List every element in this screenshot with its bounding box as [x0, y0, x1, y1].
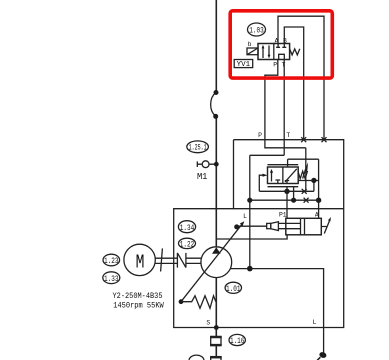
wire gallery to spring chamber and port A	[288, 159, 319, 209]
label 1.34	[178, 221, 195, 233]
coupling N	[177, 253, 186, 268]
plug X port B	[301, 137, 306, 142]
node gallery-A line2	[316, 198, 321, 203]
node M1 junction	[214, 162, 219, 167]
compensator left blocked stub	[275, 180, 280, 184]
wire line2 drain gallery	[250, 199, 319, 201]
plug X port A	[322, 137, 327, 142]
valve compensator body	[268, 167, 299, 184]
wire T route	[283, 60, 285, 156]
svg-text:P1: P1	[279, 212, 287, 219]
node suction at S	[214, 325, 219, 330]
wire P gallery down to pilot line1	[305, 148, 307, 192]
hose flexible connection	[211, 93, 216, 117]
solenoid b	[247, 48, 258, 55]
svg-text:1.22: 1.22	[180, 239, 195, 249]
compensator proportional lines	[268, 165, 299, 187]
red highlight frame	[230, 11, 332, 78]
shaft slash	[161, 248, 163, 271]
svg-text:Y2-250M-4B35: Y2-250M-4B35	[113, 293, 163, 301]
feedback cone tip box	[267, 223, 271, 228]
spring valve 1.03	[290, 49, 300, 55]
wire P internal jog	[265, 140, 306, 148]
wire A route to plug	[278, 16, 324, 140]
stroking cylinder body	[286, 218, 322, 235]
valve U1.03 left position arrows	[263, 46, 269, 59]
node link on pump arrow	[234, 224, 239, 229]
pump outlet triangle	[212, 247, 221, 254]
label YV1 box	[234, 60, 253, 68]
wire T stub compensator	[293, 187, 295, 201]
node line2 left	[247, 198, 252, 203]
svg-text:B: B	[283, 38, 287, 45]
svg-text:1.34: 1.34	[180, 223, 195, 233]
svg-text:1.23: 1.23	[104, 256, 119, 266]
piston rod	[278, 223, 300, 228]
manifold block outline	[174, 140, 344, 328]
svg-text:A: A	[315, 212, 319, 219]
link rod to pump arrow	[237, 225, 267, 227]
svg-text:M1: M1	[197, 171, 208, 182]
wire P1 line	[286, 187, 288, 219]
wire case drain	[231, 269, 324, 353]
pump spring	[181, 296, 216, 309]
pump variable arrow	[181, 224, 242, 302]
motor M circle	[124, 244, 155, 275]
svg-text:1.01: 1.01	[226, 284, 241, 294]
adjust arrow compensator	[303, 170, 306, 179]
svg-text:1450rpm 55KW: 1450rpm 55KW	[113, 303, 164, 311]
wire B route to plug	[284, 27, 303, 140]
feedback cone	[271, 222, 279, 231]
wire pump pressure line vertical	[215, 0, 217, 247]
wire L drain line	[249, 155, 251, 268]
node line2 T stub	[291, 198, 296, 203]
label 1.01	[225, 282, 241, 293]
bottom clipped label ellipse	[189, 355, 204, 360]
node pump arrow base	[179, 299, 184, 304]
wire P route	[265, 60, 278, 140]
plug X line2	[304, 198, 309, 203]
svg-text:YV1: YV1	[237, 61, 251, 69]
partition line	[234, 208, 344, 210]
pilot line into compensator	[259, 175, 263, 191]
node P1 line1	[284, 189, 289, 194]
spring compensator	[298, 171, 308, 179]
node hose bottom	[213, 114, 218, 119]
svg-text:1.25.1: 1.25.1	[189, 144, 207, 153]
compensator left position arrow	[271, 171, 273, 182]
svg-text:b: b	[248, 41, 252, 48]
label 1.22	[179, 238, 196, 248]
label 1.23	[103, 254, 120, 266]
svg-text:L: L	[243, 213, 247, 220]
plug X line1	[302, 189, 307, 194]
wire suction line	[215, 278, 217, 357]
wire spring chamber drain	[298, 181, 318, 192]
compensator right position diagonal	[285, 169, 297, 182]
compensator right blocked stubs	[285, 181, 289, 184]
test point M1	[197, 161, 216, 167]
valve U1.03 body	[258, 44, 290, 60]
svg-text:L: L	[313, 319, 317, 326]
label 1.03	[248, 23, 266, 36]
piston	[301, 218, 305, 235]
label 1.16	[229, 334, 245, 345]
cylinder adjust arrow	[321, 220, 330, 234]
valve U1.03 right position blocked ports A B	[276, 44, 286, 48]
svg-text:P: P	[273, 62, 277, 69]
wire pilot sense pump outlet to cylinder	[216, 235, 287, 239]
valve U1.03 right position P-T bypass	[279, 54, 285, 59]
shaft pump side	[186, 258, 201, 263]
svg-text:M: M	[136, 251, 145, 273]
svg-text:S: S	[206, 320, 210, 327]
pump 1.01 circle	[201, 247, 232, 278]
filter 1.16	[211, 336, 221, 345]
label 1.25.1	[187, 141, 209, 153]
drain end blob	[319, 351, 328, 359]
node case drain L branch	[247, 266, 253, 272]
wire pilot sense line1	[259, 190, 304, 192]
wire A stub to cylinder	[318, 209, 320, 219]
bottom clipped component	[211, 357, 221, 360]
svg-text:P: P	[258, 132, 262, 139]
svg-text:1.16: 1.16	[230, 336, 245, 346]
svg-text:1.33: 1.33	[104, 274, 119, 284]
svg-text:1.03: 1.03	[249, 26, 264, 36]
node hose top	[214, 90, 219, 95]
node spring chamber	[311, 178, 316, 183]
label 1.33	[103, 272, 120, 284]
svg-text:T: T	[286, 132, 290, 139]
svg-text:T: T	[281, 62, 285, 69]
wire gallery to L line	[250, 154, 284, 156]
shaft motor side	[155, 258, 177, 263]
